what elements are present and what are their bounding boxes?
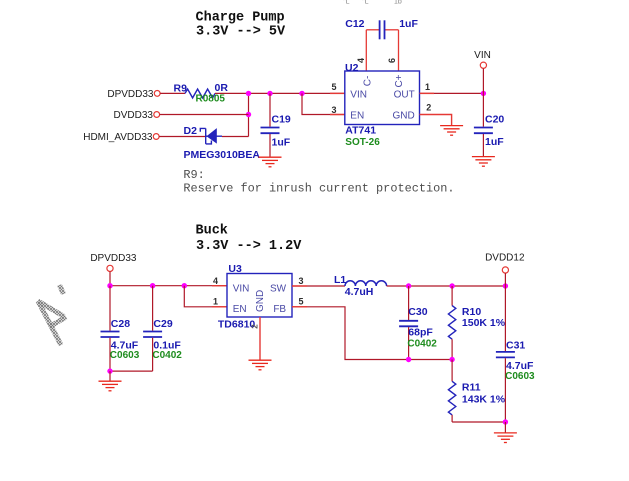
- svg-text:C0603: C0603: [110, 350, 140, 361]
- svg-text:3: 3: [298, 276, 303, 286]
- svg-text:DVDD33: DVDD33: [114, 110, 154, 121]
- wire R11 bottom to ground column: [452, 421, 505, 423]
- wire vertical D2 column: [248, 93, 250, 136]
- svg-text:2: 2: [426, 102, 431, 112]
- svg-text:Buck: Buck: [196, 223, 228, 238]
- svg-text:DVDD12: DVDD12: [485, 253, 525, 264]
- inductor L1: [345, 281, 387, 286]
- diode D2 (schottky): [200, 128, 222, 144]
- svg-text:3.3V --> 5V: 3.3V --> 5V: [196, 25, 286, 40]
- capacitor C12: [366, 29, 379, 31]
- svg-text:C0402: C0402: [152, 350, 182, 361]
- wire U3 GND pin down: [259, 317, 261, 360]
- node junction at R10 top: [449, 283, 454, 288]
- ground below C20: [472, 157, 495, 167]
- svg-text:GND: GND: [255, 290, 266, 312]
- wire EN branch (buck): [184, 286, 227, 307]
- svg-text:HDMI_AVDD33: HDMI_AVDD33: [83, 132, 153, 143]
- capacitor C20: [482, 93, 484, 126]
- clipped gray text fragments at top edge: [343, 0, 402, 6]
- node junction OUT/VIN/C20: [481, 91, 486, 96]
- svg-text:U3: U3: [228, 263, 242, 275]
- svg-text:5: 5: [298, 296, 303, 306]
- resistor R11: [451, 360, 453, 382]
- wire SW pin to L1: [292, 285, 345, 287]
- svg-text:C+: C+: [394, 74, 405, 87]
- svg-text:DPVDD33: DPVDD33: [107, 89, 154, 100]
- wire DVDD12 down: [504, 273, 506, 286]
- svg-text:1uF: 1uF: [272, 137, 291, 149]
- svg-text:Charge Pump: Charge Pump: [196, 11, 285, 26]
- wire C28 bottom to ground: [109, 371, 111, 381]
- terminal DPVDD33 (buck): [107, 265, 113, 271]
- node junction at DVDD12: [503, 283, 508, 288]
- node junction at R10 bottom: [449, 357, 454, 362]
- svg-text:1: 1: [425, 82, 430, 92]
- ground at U2 GND: [440, 126, 463, 136]
- terminal DVDD12: [502, 267, 508, 273]
- svg-text:4.7uH: 4.7uH: [345, 286, 374, 298]
- svg-text:Reserve for inrush current pro: Reserve for inrush current protection.: [183, 181, 454, 195]
- svg-text:C30: C30: [408, 306, 427, 318]
- node junction at C30 top: [406, 283, 411, 288]
- wire DPVDD33 down: [109, 272, 111, 286]
- capacitor C30: [408, 286, 410, 320]
- svg-text:R11: R11: [462, 381, 481, 393]
- SECTION: charge pump: [83, 0, 504, 195]
- svg-text:GND: GND: [392, 111, 414, 122]
- node junction on main net at D2 column: [246, 91, 251, 96]
- svg-text:4: 4: [356, 58, 366, 63]
- svg-text:68pF: 68pF: [408, 326, 433, 338]
- svg-text:1uF: 1uF: [485, 136, 504, 148]
- svg-text:R9:: R9:: [183, 168, 204, 182]
- svg-text:C-: C-: [363, 76, 374, 87]
- capacitor C28: [109, 286, 111, 331]
- terminal DVDD33: [154, 112, 160, 118]
- svg-text:5: 5: [331, 82, 336, 92]
- wire VIN down: [482, 69, 484, 94]
- svg-text:SOT-26: SOT-26: [345, 137, 380, 148]
- svg-text:2: 2: [250, 324, 259, 329]
- svg-text:AT741: AT741: [345, 124, 376, 136]
- wire R9 to U2 pin5 (main net): [215, 92, 345, 94]
- node junction at C30 bottom: [406, 357, 411, 362]
- SECTION: buck: [38, 223, 535, 442]
- node junction DVDD33 join: [246, 112, 251, 117]
- svg-text:SW: SW: [270, 284, 287, 295]
- svg-text:1uF: 1uF: [399, 18, 418, 30]
- capacitor C19: [269, 93, 271, 126]
- node junction at C29: [150, 283, 155, 288]
- svg-text:150K 1%: 150K 1%: [462, 317, 506, 329]
- ground below C19: [259, 157, 282, 167]
- regulator U3 body: [227, 274, 292, 318]
- svg-text:C0603: C0603: [505, 371, 535, 382]
- watermark A' (hatched strokes): [38, 285, 66, 345]
- svg-text:C31: C31: [506, 340, 525, 352]
- svg-text:C12: C12: [345, 18, 364, 30]
- svg-text:4: 4: [213, 276, 218, 286]
- terminal DPVDD33: [154, 91, 160, 97]
- wire C12 to pin4: [365, 30, 367, 71]
- svg-text:VIN: VIN: [350, 89, 367, 100]
- svg-text:3: 3: [331, 105, 336, 115]
- svg-text:OUT: OUT: [394, 89, 415, 100]
- svg-text:1b: 1b: [394, 0, 402, 6]
- wire GND pin to ground: [420, 115, 452, 126]
- wire EN branch: [302, 93, 345, 114]
- svg-text:6: 6: [387, 58, 397, 63]
- svg-text:L1: L1: [334, 274, 346, 286]
- capacitor C29: [152, 286, 154, 331]
- svg-text:EN: EN: [350, 111, 364, 122]
- terminal HDMI_AVDD33: [153, 134, 159, 140]
- node junction on main net at C19 column: [267, 91, 272, 96]
- svg-text:143K 1%: 143K 1%: [462, 393, 506, 405]
- wire OUT net: [420, 92, 484, 94]
- svg-text:D2: D2: [184, 125, 198, 137]
- wire L1 to DVDD12: [387, 285, 506, 287]
- svg-text:PMEG3010BEA: PMEG3010BEA: [184, 149, 261, 161]
- svg-text:1: 1: [213, 296, 218, 306]
- ground below DVDD12 column: [494, 433, 517, 443]
- resistor R9: [185, 89, 215, 98]
- wire DVDD33: [160, 114, 249, 116]
- svg-text:R9: R9: [174, 82, 188, 94]
- node junction at EN branch: [182, 283, 187, 288]
- svg-text:''L: ''L: [343, 0, 350, 6]
- svg-text:C20: C20: [485, 114, 504, 126]
- node junction at C31/ground: [503, 419, 508, 424]
- node junction at DPVDD33 drop: [107, 283, 112, 288]
- svg-text:''L: ''L: [362, 0, 369, 6]
- node junction at C28 bottom: [107, 368, 112, 373]
- resistor R10: [451, 286, 453, 306]
- svg-text:VIN: VIN: [233, 284, 250, 295]
- svg-text:VIN: VIN: [474, 50, 491, 61]
- svg-text:FB: FB: [273, 304, 286, 315]
- node junction on main net at EN branch: [299, 91, 304, 96]
- svg-text:R10: R10: [462, 306, 481, 318]
- op-amp U2 body: [345, 71, 420, 125]
- wire to ground (buck output): [504, 422, 506, 433]
- wire C12 to pin6: [398, 30, 400, 71]
- svg-text:DPVDD33: DPVDD33: [90, 253, 137, 264]
- ground below U3: [249, 360, 272, 370]
- svg-text:C19: C19: [272, 114, 291, 126]
- svg-text:3.3V --> 1.2V: 3.3V --> 1.2V: [196, 239, 302, 254]
- svg-text:R0805: R0805: [196, 93, 226, 104]
- terminal VIN: [480, 62, 486, 68]
- svg-text:EN: EN: [233, 304, 247, 315]
- wire HDMI_AVDD33 to D2: [159, 136, 205, 138]
- svg-text:C28: C28: [111, 318, 130, 330]
- wire DPVDD33 to R9: [160, 92, 185, 94]
- capacitor C31: [504, 286, 506, 351]
- wire D2 to vertical: [222, 136, 249, 138]
- wire FB pin route: [292, 307, 452, 360]
- wire joining C28/C29 bottoms: [110, 370, 153, 372]
- svg-text:C29: C29: [153, 318, 172, 330]
- wire buck input net: [110, 285, 227, 287]
- svg-text:C0402: C0402: [407, 338, 437, 349]
- svg-text:0R: 0R: [215, 82, 229, 94]
- ground below C28: [99, 381, 122, 391]
